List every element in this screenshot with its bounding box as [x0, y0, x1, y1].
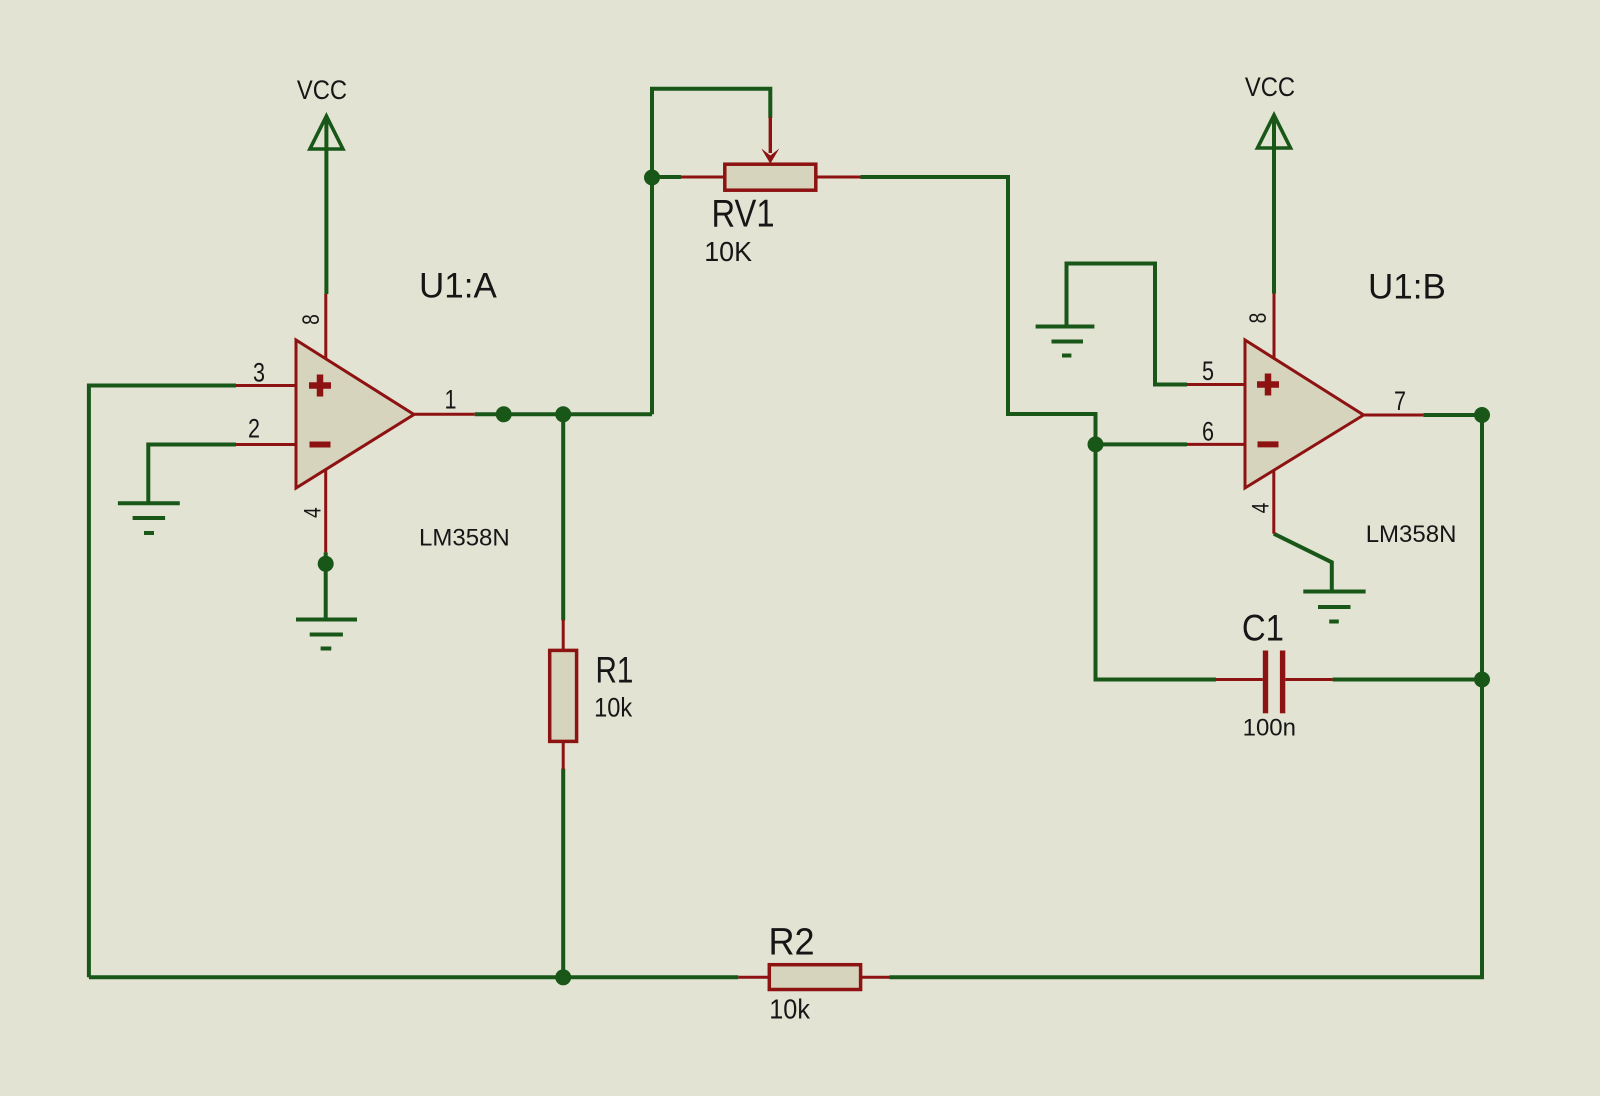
- svg-text:LM358N: LM358N: [1366, 521, 1457, 548]
- wire riser to RV1 and wiper loop: [652, 89, 770, 415]
- svg-text:LM358N: LM358N: [419, 525, 510, 552]
- wire pin3 U1:A to left rail: [89, 386, 236, 978]
- wire VCC stem U1:A: [324, 119, 328, 294]
- C1 left stub: [1216, 678, 1263, 681]
- RV1 wiper arrowhead: [761, 149, 779, 164]
- R2 left stub: [738, 976, 769, 979]
- wire pin2 U1:A to ground: [148, 445, 236, 504]
- svg-text:VCC: VCC: [297, 75, 347, 105]
- ground G2 (pin4 U1:A): [296, 620, 357, 649]
- capacitor C1 plates: [1263, 651, 1268, 714]
- label 100n (C1): [1243, 714, 1296, 741]
- resistor R2 body: [769, 965, 860, 990]
- wire VCC stem U1:B: [1272, 118, 1276, 294]
- svg-text:C1: C1: [1242, 608, 1284, 649]
- pin number 5: [1202, 357, 1214, 387]
- C1 right stub: [1285, 678, 1332, 681]
- wire R1 top branch: [561, 414, 565, 620]
- VCC power arrow left: [310, 116, 343, 149]
- U1:A minus: [310, 442, 331, 448]
- R1 top stub: [562, 620, 565, 651]
- svg-text:R1: R1: [596, 650, 634, 691]
- svg-text:VCC: VCC: [1245, 73, 1295, 103]
- RV1 wiper stem: [769, 117, 772, 153]
- pin number 8 (U1:A, rotated): [297, 314, 325, 325]
- junction dot R1 branch: [555, 406, 571, 422]
- R1 bottom stub: [562, 741, 565, 769]
- R2 right stub: [861, 976, 890, 979]
- junction dot pin4 U1:A: [318, 556, 334, 572]
- VCC power arrow right: [1258, 115, 1291, 148]
- pin number 6: [1202, 417, 1214, 447]
- svg-text:6: 6: [1202, 417, 1214, 447]
- svg-text:8: 8: [297, 314, 325, 325]
- svg-text:RV1: RV1: [712, 192, 775, 235]
- pin number 4 (U1:A, rotated): [299, 507, 327, 518]
- junction dot pin6 U1:B: [1088, 436, 1104, 452]
- junction dot output A: [496, 406, 512, 422]
- op-amp U1:B: [1245, 340, 1364, 488]
- wire junction to pin6 U1:B: [1096, 442, 1188, 446]
- svg-text:8: 8: [1244, 313, 1272, 324]
- junction dot C1 right: [1474, 672, 1490, 688]
- ground G3 (pin5 U1:B): [1036, 327, 1095, 356]
- pin 2 stub U1:A: [236, 443, 297, 446]
- pin 5 stub U1:B: [1187, 383, 1246, 386]
- RV1 left stub: [681, 176, 725, 179]
- op-amp U1:A: [296, 340, 414, 488]
- svg-text:1: 1: [444, 385, 456, 415]
- label R1: [596, 650, 634, 691]
- pin number 4 (U1:B, rotated): [1247, 503, 1275, 514]
- pin 7 stub U1:B: [1363, 414, 1423, 417]
- label VCC left: [297, 75, 347, 105]
- pin number 8 (U1:B, rotated): [1244, 313, 1272, 324]
- pin 3 stub U1:A: [236, 384, 297, 387]
- label 10k (R1): [594, 693, 632, 723]
- svg-text:5: 5: [1202, 357, 1214, 387]
- ground G4 (pin4 U1:B): [1303, 592, 1365, 622]
- svg-text:U1:A: U1:A: [419, 267, 497, 306]
- svg-text:R2: R2: [769, 919, 815, 962]
- pin 8 stub U1:B: [1273, 294, 1276, 360]
- junction dot pin7 U1:B: [1474, 407, 1490, 423]
- pin 8 stub U1:A: [324, 294, 327, 359]
- pin 4 stub U1:A: [324, 470, 327, 552]
- pin number 7: [1394, 387, 1406, 417]
- wire pin4 U1:B diagonal to ground G4: [1274, 534, 1332, 591]
- label 10k (R2): [769, 993, 810, 1025]
- svg-text:100n: 100n: [1243, 714, 1296, 741]
- wire output U1:A: [475, 412, 652, 416]
- pin number 2: [248, 414, 260, 444]
- label RV1: [712, 192, 775, 235]
- svg-text:U1:B: U1:B: [1368, 268, 1446, 307]
- svg-text:10k: 10k: [594, 693, 632, 723]
- pin 6 stub U1:B: [1187, 443, 1246, 446]
- svg-text:7: 7: [1394, 387, 1406, 417]
- svg-text:3: 3: [253, 358, 265, 388]
- wire pin7 right rail down and bottom to R2: [890, 415, 1483, 977]
- RV1 right stub: [816, 176, 861, 179]
- resistor R1 body: [550, 650, 577, 741]
- pin number 1: [444, 385, 456, 415]
- ground G1 (pin2 U1:A): [118, 503, 180, 533]
- wire RV1 left junction to stub: [652, 175, 681, 179]
- svg-text:4: 4: [299, 507, 327, 518]
- pin number 3: [253, 358, 265, 388]
- svg-text:2: 2: [248, 414, 260, 444]
- svg-text:10K: 10K: [704, 236, 752, 268]
- U1:B minus: [1258, 441, 1279, 447]
- wire pin5 U1:B to ground G3: [1067, 264, 1188, 385]
- label R2: [769, 919, 815, 962]
- svg-text:10k: 10k: [769, 993, 810, 1025]
- label 10K (RV1): [704, 236, 752, 268]
- wire R1 bottom: [561, 769, 565, 978]
- pin 4 stub U1:B: [1272, 470, 1275, 534]
- wire RV1 right to pin6 junction: [861, 177, 1096, 444]
- wire bottom rail left of R2: [89, 975, 738, 979]
- U1:B plus: [1257, 374, 1279, 396]
- junction dot bottom R1: [555, 969, 571, 985]
- junction dot RV1 left: [644, 170, 660, 186]
- label C1: [1242, 608, 1284, 649]
- label VCC right: [1245, 73, 1295, 103]
- wire junction down to C1 left: [1096, 444, 1217, 679]
- pin 1 stub U1:A: [414, 413, 475, 416]
- svg-text:4: 4: [1247, 503, 1275, 514]
- potentiometer RV1 body: [725, 164, 816, 190]
- U1:A plus: [309, 375, 331, 397]
- wire pin4 U1:A to ground: [324, 552, 328, 617]
- wire C1 right to output rail: [1333, 678, 1482, 682]
